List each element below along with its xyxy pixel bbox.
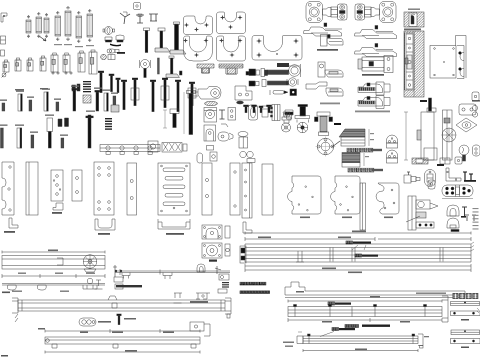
plate P11 bbox=[262, 164, 273, 215]
roller pin 2 bbox=[36, 17, 42, 33]
bolt drawing 1 bbox=[404, 112, 408, 160]
rail3 top dims bbox=[45, 330, 200, 332]
hinge H7 bbox=[358, 84, 383, 93]
hinge H5 open bbox=[306, 82, 327, 89]
dash stack bbox=[105, 118, 112, 119]
left tick marks bbox=[95, 280, 103, 289]
roller pin 1 bbox=[26, 20, 31, 33]
plastic bar A2 bbox=[451, 311, 480, 316]
striped block bbox=[272, 105, 280, 121]
rail5 right end bbox=[442, 296, 448, 322]
dome part bbox=[447, 218, 459, 228]
hinge arm A3 bbox=[355, 30, 397, 39]
block small bbox=[262, 106, 268, 117]
hinge arm A4 bbox=[355, 48, 397, 57]
rail3 right bracket bbox=[190, 322, 204, 331]
gray box r1 bbox=[111, 105, 119, 112]
roller V bbox=[249, 105, 258, 120]
cam lock body bbox=[459, 104, 476, 115]
hinge H6 mounted bbox=[362, 57, 384, 71]
mono rail hanger 1 bbox=[122, 273, 130, 279]
edge parts right bbox=[472, 92, 479, 101]
eye ring 2 bbox=[288, 78, 296, 86]
rail6 bottom dim bbox=[303, 350, 418, 352]
pin part bbox=[1, 50, 5, 56]
rail profile lower bbox=[342, 153, 360, 163]
plate P6 bbox=[127, 163, 137, 215]
rail1 under dims bbox=[2, 275, 105, 277]
wall section main bbox=[404, 31, 424, 97]
clip part 2 bbox=[1, 36, 6, 44]
side bracket bbox=[228, 108, 236, 121]
omega clip bbox=[447, 205, 459, 216]
wall section label bbox=[404, 29, 421, 31]
roller pin 7 bbox=[87, 14, 93, 37]
mono rail line bbox=[115, 270, 230, 272]
slide latch assembly bbox=[408, 196, 416, 230]
plate P5 bbox=[94, 162, 114, 215]
fastener r1 b bbox=[261, 69, 265, 77]
dowel screw r1-3 bbox=[44, 92, 48, 111]
guide bracket 8 bbox=[89, 52, 97, 74]
spoke wheel small bbox=[297, 122, 308, 133]
hatch bracket top bbox=[412, 158, 428, 164]
plastic bar B2 bbox=[451, 339, 480, 344]
guide bracket 1 bbox=[3, 62, 9, 72]
rail5 bold label2 bbox=[345, 325, 348, 328]
eye ring 1 bbox=[289, 65, 301, 77]
long screw row2 #6 bbox=[189, 82, 195, 84]
long screw row2 #3 bbox=[150, 80, 156, 82]
tiny labels under pins bbox=[54, 44, 62, 45]
flange on bolt2 bbox=[442, 128, 456, 142]
hang screw bbox=[117, 314, 122, 316]
threaded rod small bbox=[158, 58, 160, 74]
thin plate right bbox=[360, 183, 366, 230]
u-bracket under P5 bbox=[95, 219, 115, 230]
euro hinge H1 bbox=[306, 2, 323, 23]
black tag small bbox=[437, 164, 444, 166]
dowel screw r1-6 bbox=[96, 92, 99, 111]
euro hinge H1b bbox=[355, 2, 396, 23]
dash stack left bbox=[83, 81, 91, 82]
rail4b label bbox=[240, 291, 243, 294]
rail4 top dim bbox=[245, 232, 471, 234]
cap part bbox=[285, 110, 293, 115]
ribbed bar 1 bbox=[268, 70, 289, 75]
flanged bolt bbox=[300, 106, 306, 116]
rail1 assembly view bbox=[2, 283, 105, 285]
oval cluster bbox=[79, 318, 96, 326]
pulley wheel bbox=[141, 60, 150, 69]
ribbed bar 2 bbox=[268, 81, 289, 85]
clip pair bbox=[240, 151, 246, 157]
black screw edge 3 bbox=[116, 78, 121, 80]
cup B bbox=[116, 35, 124, 40]
rail5 body bbox=[288, 307, 442, 317]
label lower rail bbox=[348, 168, 352, 172]
big bolt hatched bbox=[317, 112, 330, 116]
guide bracket 5 bbox=[51, 55, 58, 72]
flush bolt body bbox=[406, 34, 413, 89]
mono rail end parts bbox=[215, 266, 221, 274]
stud screw S1 bbox=[144, 28, 150, 31]
rail4 left detail bbox=[240, 246, 246, 263]
rail2 body bbox=[18, 300, 225, 311]
dowel screw r2-2 bbox=[31, 135, 34, 148]
rail4b step bbox=[285, 282, 465, 295]
long screw row2 #1 bbox=[121, 80, 127, 82]
hinge arm A2 bbox=[304, 27, 342, 36]
vent plate P7 bbox=[158, 163, 190, 215]
hinge plate P1 bbox=[184, 16, 213, 35]
rail5 bottom dim bbox=[288, 319, 442, 321]
x-box bar bbox=[162, 143, 182, 153]
rail6 right end bbox=[418, 334, 423, 346]
tee part small bbox=[219, 110, 225, 119]
dowel screw r1-4 bbox=[56, 102, 59, 111]
bolt screw small bbox=[429, 98, 432, 111]
black screw edge 2 bbox=[109, 74, 114, 76]
hinge small mid bbox=[358, 98, 383, 107]
clip part bbox=[1, 13, 7, 22]
crosses under brackets bbox=[52, 72, 54, 74]
dowel screw r2-4 bbox=[61, 138, 64, 148]
flush bolt detail bbox=[405, 58, 408, 64]
arch clip 1 bbox=[387, 135, 398, 143]
valve knob bbox=[105, 27, 113, 35]
wall section top block bbox=[404, 12, 424, 27]
rail3 body bbox=[45, 337, 200, 344]
rail4 sub dims bbox=[245, 238, 375, 240]
black screws pair bbox=[463, 172, 467, 180]
back plate J bbox=[430, 46, 456, 79]
dowel screw r2-3 bbox=[47, 118, 53, 132]
rail2 tab bbox=[108, 296, 117, 300]
label under H3 bbox=[317, 49, 338, 51]
rail4 ann2 bbox=[355, 254, 358, 257]
small bracket glyph B bbox=[196, 293, 210, 299]
rail profile upper bbox=[339, 129, 365, 137]
key part bbox=[459, 145, 469, 155]
plastic bar A1 bbox=[451, 302, 480, 306]
bracket under P1 bbox=[9, 218, 18, 228]
hinge H4 open bbox=[318, 62, 325, 77]
hatch block r1 bbox=[83, 95, 91, 103]
pill part bbox=[107, 49, 115, 53]
rail6 left detail bbox=[297, 336, 303, 344]
long threaded rod bbox=[187, 91, 196, 94]
screw T pair bbox=[462, 207, 467, 216]
hinge plate P2 bbox=[217, 12, 246, 34]
plate P9 bbox=[230, 163, 240, 215]
plate P10 bbox=[242, 163, 252, 218]
oval plate bbox=[425, 170, 436, 187]
screw heads row bbox=[244, 105, 249, 107]
rail1 body bbox=[2, 256, 105, 270]
plastic bar B label bbox=[461, 347, 469, 349]
stud screw S4 bbox=[169, 56, 174, 58]
rail1 dim bbox=[2, 251, 105, 253]
guide bracket 3 bbox=[27, 60, 33, 71]
rail2 left tick bbox=[15, 314, 18, 322]
plate P8 bbox=[202, 163, 212, 215]
latch big 2 bbox=[202, 243, 222, 258]
plastic rail title bbox=[453, 293, 459, 299]
rail1 wheel bbox=[83, 255, 97, 269]
flange circle bbox=[317, 138, 333, 154]
pedestal 1 bbox=[197, 64, 214, 73]
tiny label row bbox=[15, 89, 24, 90]
dee part bbox=[473, 145, 480, 156]
stud screw S3 with foot bbox=[175, 24, 179, 50]
tag dark bbox=[277, 63, 289, 67]
angle mark bbox=[221, 124, 228, 127]
cup A bbox=[105, 37, 112, 41]
small bracket glyph A bbox=[174, 293, 183, 303]
fastener r1 a bbox=[249, 69, 256, 76]
plate P4 bbox=[72, 170, 82, 201]
rail4b dim bbox=[285, 297, 465, 299]
roller pin 5 bbox=[65, 11, 71, 36]
latch foot bbox=[207, 146, 214, 151]
swoosh bbox=[110, 44, 121, 47]
rail4 body bbox=[245, 243, 471, 245]
dowel screw r1-8 bbox=[113, 96, 116, 111]
latch side pieces bbox=[225, 226, 230, 238]
latch body 2 bbox=[204, 125, 216, 141]
black dash 2 bbox=[334, 123, 341, 125]
rail6 bold label bbox=[332, 328, 335, 331]
long screw row2 #2 bbox=[132, 78, 138, 80]
tee fitting 1 bbox=[120, 13, 130, 24]
corner lines bbox=[456, 36, 467, 79]
label under H6 bbox=[362, 74, 384, 76]
knurl knob bbox=[283, 112, 290, 117]
cap nut bbox=[134, 3, 141, 10]
plate P3 bbox=[51, 170, 63, 201]
dowel screw r1-2 bbox=[29, 100, 32, 111]
rail5 top dim bbox=[288, 300, 442, 302]
dowel screw r2-0 bbox=[1, 128, 4, 148]
black dash bbox=[117, 52, 125, 54]
guide bracket 6 bbox=[63, 55, 70, 72]
rail4 bold label bbox=[240, 282, 243, 285]
roller carriage bbox=[198, 87, 221, 100]
hinge plate P3 bbox=[184, 36, 213, 61]
roller pin 3 bbox=[44, 18, 49, 33]
wavy plate W2 bbox=[331, 176, 360, 214]
hook bracket bbox=[457, 46, 464, 79]
corner plate bbox=[235, 86, 252, 100]
arch clip 2 bbox=[387, 150, 398, 158]
plastic bar B1 bbox=[451, 330, 480, 335]
rail2 right end bbox=[225, 298, 231, 314]
leader arrow bbox=[39, 36, 46, 41]
black bits row bbox=[72, 85, 76, 91]
guide bracket 7 bbox=[78, 53, 85, 72]
rail4 ann1 bbox=[346, 241, 349, 244]
hinge bracket H3 bbox=[321, 35, 328, 47]
guide bracket 2 bbox=[15, 60, 21, 71]
latch body 1 bbox=[204, 108, 217, 123]
guide bracket 4 bbox=[40, 58, 46, 71]
vent plate feet bbox=[158, 219, 190, 229]
rail3 bottom dim bbox=[45, 351, 200, 353]
bracket under P10 bbox=[243, 222, 252, 233]
screw row2 washers bbox=[131, 88, 139, 100]
pill part 2 bbox=[108, 55, 115, 60]
black screw edge 1 bbox=[98, 71, 104, 73]
rail4 right dims bbox=[473, 208, 479, 209]
mono rail hanger 2 bbox=[163, 273, 172, 280]
L angle bracket bbox=[446, 168, 461, 181]
hatch ball bbox=[101, 54, 107, 60]
horizontal screw bbox=[273, 91, 284, 95]
mono rail omega bbox=[197, 264, 205, 272]
bolt drawing 2 bbox=[443, 110, 453, 160]
latch big 1 bbox=[202, 225, 222, 239]
dark pill tag bbox=[237, 101, 244, 104]
tag part bbox=[428, 180, 435, 189]
fastener r2 a bbox=[249, 81, 255, 86]
rail top view bar bbox=[100, 145, 160, 152]
pedestal 2 bbox=[219, 64, 243, 74]
label hinge mid bbox=[355, 111, 390, 113]
roller pin 6 bbox=[76, 16, 82, 38]
rail4 under lines bbox=[245, 265, 471, 267]
dowel screw r1-5 bbox=[73, 90, 76, 111]
tee fitting 2 bbox=[136, 15, 144, 23]
long screw row2 #4 bbox=[162, 78, 168, 80]
long screw row2 #5 bbox=[175, 80, 181, 82]
roller pin 4 bbox=[55, 16, 61, 36]
butt hinge pair bbox=[442, 185, 473, 197]
knob top view bbox=[282, 123, 291, 132]
plate P1 keyhole bbox=[2, 162, 14, 215]
hinge plate P4 bbox=[217, 36, 246, 61]
fastener r2 b bbox=[262, 80, 266, 87]
roller D bbox=[218, 132, 229, 141]
tee fitting 3 bbox=[149, 14, 158, 21]
cam diamond bbox=[456, 118, 477, 132]
plug part bbox=[404, 175, 411, 183]
plate P2 bbox=[26, 162, 38, 215]
parts top right bbox=[440, 158, 450, 164]
washer screw bbox=[238, 132, 248, 137]
pill small2 bbox=[210, 152, 217, 161]
plate P3 foot bbox=[53, 203, 63, 210]
latch label bbox=[209, 260, 217, 262]
rail5 ann1 bbox=[328, 302, 331, 305]
wavy plate W1 bbox=[288, 176, 321, 214]
dowel screw r1-7 bbox=[104, 93, 108, 111]
phi mark bbox=[2, 73, 6, 77]
hex bolt bbox=[170, 109, 179, 114]
pill small bbox=[197, 153, 203, 163]
big U plate E bbox=[252, 36, 302, 61]
dowel screw r2-5 bbox=[88, 115, 91, 148]
dowel screw r1-0 bbox=[2, 103, 5, 111]
hook plate W3 bbox=[376, 183, 399, 214]
hanger bracket right bbox=[113, 265, 117, 277]
tee blocks black bbox=[58, 118, 69, 127]
left end bracket bbox=[148, 141, 158, 152]
rail6 body bbox=[303, 336, 418, 344]
black square nut bbox=[290, 89, 297, 96]
label upper rail bbox=[347, 148, 351, 152]
dowel screw r1-1 bbox=[18, 94, 22, 111]
plastic bar A label bbox=[461, 319, 469, 321]
rail4 posts bbox=[296, 251, 304, 262]
wall top dim bbox=[408, 9, 420, 10]
bottom left tick bbox=[1, 355, 8, 357]
hatch tag bbox=[205, 101, 218, 105]
stud screw S2 with foot bbox=[158, 28, 165, 31]
mono rail label bbox=[116, 285, 142, 287]
dowel screw r2-1 bbox=[17, 128, 22, 148]
tiny black bits bbox=[180, 71, 183, 75]
rail2 left end bbox=[12, 298, 18, 313]
